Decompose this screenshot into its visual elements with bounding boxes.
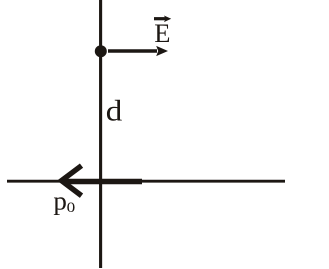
wire: horizontal axis line [7,180,285,183]
label d: distance between dot and horizontal axis [106,94,123,127]
wire: vertical axis line [99,0,102,268]
svg-text:d: d [106,94,123,127]
svg-text:p: p [53,187,67,216]
label E: letter E [154,18,170,48]
node: charge dot on vertical axis [95,45,107,57]
svg-text:0: 0 [67,200,76,216]
arrow p0: thick momentum shaft [62,166,143,196]
arrow E: field vector shaft [108,46,168,56]
label E: vector bar arrow above E [154,16,171,23]
arrow E: field vector head [156,46,168,56]
svg-text:E: E [154,18,170,48]
arrow p0: chevron arrowhead pointing left [62,166,82,196]
label p0: momentum symbol p [53,187,75,216]
